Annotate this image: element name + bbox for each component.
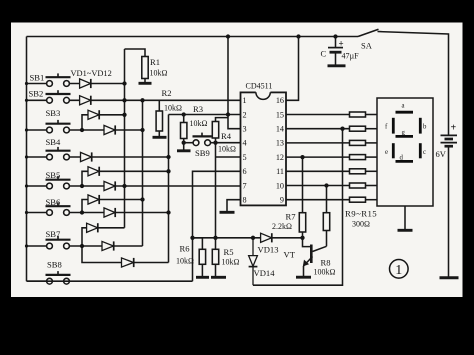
svg-text:1: 1 — [243, 96, 247, 105]
svg-text:14: 14 — [276, 125, 284, 134]
ground of display — [398, 229, 413, 232]
wire row SB6 to bus C — [69, 212, 168, 214]
diode VD8 upper of SB6 — [88, 195, 99, 204]
svg-text:SB9: SB9 — [195, 148, 210, 158]
svg-text:2.2kΩ: 2.2kΩ — [272, 222, 292, 231]
diode VD3 upper of SB3 — [88, 110, 99, 119]
svg-text:12: 12 — [276, 153, 284, 162]
svg-text:c: c — [423, 149, 426, 156]
resistor R1 10k — [125, 49, 152, 83]
seven segment g bar — [396, 135, 414, 138]
junction dots on bus E — [213, 141, 217, 240]
svg-text:d: d — [400, 155, 404, 162]
junction dot R7 bottom — [300, 236, 304, 240]
diode VD12 lower of SB7 — [122, 258, 134, 267]
wire bus D / IC pin6 — [193, 171, 241, 281]
svg-text:SB1: SB1 — [30, 73, 45, 83]
svg-text:+: + — [339, 39, 344, 49]
junction dots on resistor R3 leads — [182, 112, 186, 145]
wire SB5 upper branch to bus C — [82, 171, 169, 186]
svg-text:7: 7 — [243, 181, 247, 190]
ground at IC pin8 — [220, 211, 235, 214]
svg-text:100kΩ: 100kΩ — [314, 268, 336, 277]
resistor R14 — [350, 183, 378, 188]
svg-text:e: e — [385, 149, 388, 156]
svg-text:R1: R1 — [150, 57, 160, 67]
wire display common to ground — [404, 206, 406, 229]
seven segment b bar — [419, 118, 422, 134]
wire row SB4 to bus C — [69, 156, 168, 158]
pushbutton SB6 — [27, 202, 71, 215]
svg-text:SB3: SB3 — [46, 108, 61, 118]
wire bus C — [168, 115, 170, 263]
svg-text:R2: R2 — [162, 88, 172, 98]
svg-text:VD14: VD14 — [254, 268, 276, 278]
svg-text:15: 15 — [276, 110, 284, 119]
pushbutton SB5 — [27, 176, 71, 189]
seven segment display box — [377, 98, 433, 206]
svg-text:9: 9 — [280, 196, 284, 205]
wire row SB7 to bus B — [69, 245, 142, 247]
svg-text:SB6: SB6 — [46, 197, 62, 207]
wire left frame vertical — [26, 37, 28, 282]
svg-text:+: + — [451, 123, 457, 134]
wire IC pin14 row — [286, 128, 350, 130]
wire VD13 row — [193, 237, 303, 239]
svg-text:R6: R6 — [180, 244, 191, 254]
diode VD10 upper of SB7 — [87, 223, 98, 232]
svg-text:R9~R15: R9~R15 — [345, 209, 377, 219]
svg-text:13: 13 — [276, 139, 284, 148]
diode VD13 — [261, 233, 272, 242]
wire SB7 upper branch to bus A — [82, 228, 125, 246]
junction dots on bus C — [166, 155, 170, 215]
junction dots on bus A — [122, 81, 126, 188]
junction dots on supply rail — [226, 34, 338, 38]
wire IC pin11 row — [286, 170, 350, 172]
svg-text:R4: R4 — [221, 131, 232, 141]
pushbutton SB7 — [27, 236, 71, 249]
pushbutton SB1 — [27, 73, 71, 86]
svg-text:10kΩ: 10kΩ — [222, 258, 240, 267]
junction dot R7 at pin12 row — [300, 155, 304, 159]
wire IC pin16 to supply rail — [286, 37, 299, 101]
junction dot loop at pin14 row — [340, 127, 344, 131]
wire IC pin5 stub — [216, 156, 241, 158]
op-amp U1 CD4511 body — [241, 90, 287, 205]
diode VD11 on SB7 row — [102, 241, 114, 250]
junction dot Vcc drop at pin2 row — [226, 112, 230, 116]
wire row SB2 to IC pin1 — [69, 99, 240, 101]
wire bus B — [142, 100, 144, 246]
battery B1 6V — [440, 135, 459, 277]
svg-text:R7: R7 — [286, 212, 297, 222]
wire bus C top to IC pin2 — [169, 114, 241, 116]
svg-text:1: 1 — [395, 263, 402, 278]
svg-text:5: 5 — [243, 153, 247, 162]
diode VD2 — [80, 96, 91, 105]
svg-text:CD4511: CD4511 — [246, 82, 273, 91]
svg-text:47µF: 47µF — [342, 52, 360, 61]
resistor R3 10k — [177, 115, 191, 151]
wire rail right of SA — [378, 32, 449, 136]
pushbutton SB3 — [27, 120, 71, 133]
diode VD6 upper of SB5 — [88, 167, 99, 176]
svg-text:11: 11 — [276, 167, 284, 176]
pushbutton SB2 — [27, 90, 71, 103]
resistor R6 10k — [193, 238, 210, 277]
svg-text:8: 8 — [243, 196, 247, 205]
resistor R11 — [350, 140, 378, 145]
junction dot VD14 top — [251, 236, 255, 240]
figure number mark 1 in circle — [390, 260, 409, 279]
wire SB9 row to IC pin4 — [216, 142, 241, 144]
svg-text:SB8: SB8 — [47, 260, 62, 270]
svg-text:SB7: SB7 — [46, 229, 62, 239]
paper background — [11, 23, 463, 298]
wire IC pin9 row — [286, 199, 350, 201]
wire SB6 upper branch to bus B — [82, 200, 143, 213]
wire Vcc drop to IC pin3 — [228, 37, 241, 129]
diode VD5 on SB4 row — [81, 152, 92, 161]
svg-text:10kΩ: 10kΩ — [218, 145, 236, 154]
diode VD9 on SB6 row — [104, 208, 115, 217]
pushbutton SB9 — [184, 133, 216, 146]
svg-text:VT: VT — [284, 250, 296, 260]
svg-text:VD13: VD13 — [258, 245, 279, 255]
svg-text:3: 3 — [243, 125, 247, 134]
wire row SB5 / IC pin7 — [69, 185, 240, 187]
resistor R12 — [350, 155, 378, 160]
pushbutton SB8 — [27, 271, 71, 284]
junction dot R8 at pin10 row — [324, 183, 328, 187]
svg-text:R8: R8 — [321, 258, 331, 268]
svg-text:R5: R5 — [224, 247, 234, 257]
transistor VT — [296, 238, 327, 277]
seven segment e bar — [392, 143, 395, 158]
wire SB3 upper branch to bus A — [82, 115, 125, 130]
capacitor C1 47uF — [328, 37, 346, 66]
diode VD7 on SB5 row — [104, 181, 115, 190]
resistor R8 100k — [323, 186, 329, 247]
svg-text:16: 16 — [276, 96, 284, 105]
wire segment g feedback: pin14 row down to bottom loop — [253, 129, 343, 286]
svg-text:SA: SA — [361, 41, 373, 51]
svg-text:SB2: SB2 — [29, 89, 44, 99]
wire row SB8 to bus D — [27, 280, 193, 282]
svg-text:10kΩ: 10kΩ — [190, 119, 208, 128]
svg-text:300Ω: 300Ω — [352, 220, 370, 229]
svg-text:10: 10 — [276, 181, 284, 190]
wire SB7 lower branch to bus C — [82, 246, 169, 263]
svg-text:R3: R3 — [193, 104, 203, 114]
junction dots at button branches — [80, 128, 84, 248]
svg-text:g: g — [402, 130, 406, 137]
svg-text:a: a — [402, 103, 405, 110]
diode VD4 on SB3 row — [104, 125, 115, 134]
svg-text:4: 4 — [243, 139, 247, 148]
wire top supply rail — [27, 36, 359, 38]
switch SA — [358, 29, 379, 36]
wire bus E latch — [215, 143, 217, 238]
svg-text:SB5: SB5 — [46, 170, 61, 180]
wire bus A — [124, 49, 126, 228]
seven segment a bar — [396, 111, 414, 114]
junction dots on left frame — [25, 82, 28, 248]
wire IC pin8 to ground — [227, 200, 241, 212]
junction dots on bus B — [140, 98, 144, 202]
diode VD14 — [249, 238, 258, 285]
svg-text:6: 6 — [243, 167, 247, 176]
wire row SB1 to bus A — [69, 83, 124, 85]
seven segment c bar — [419, 143, 422, 158]
junction dot on bus D — [190, 236, 194, 240]
resistor R5 10k — [211, 238, 226, 277]
svg-text:10kΩ: 10kΩ — [150, 69, 168, 78]
wire IC pin10 row — [286, 185, 350, 187]
diode VD1 — [80, 79, 91, 88]
wire IC pin15 row — [286, 114, 350, 116]
resistor R10 — [350, 126, 378, 131]
resistor R13 — [350, 169, 378, 174]
svg-text:2: 2 — [243, 110, 247, 119]
wire row SB3 to bus B — [69, 129, 142, 131]
seven segment d bar — [396, 160, 414, 163]
svg-text:6V: 6V — [436, 149, 447, 159]
svg-text:b: b — [423, 124, 427, 131]
resistor R15 — [350, 197, 378, 202]
resistor R4 10k — [212, 118, 228, 143]
resistor R9 — [350, 112, 378, 117]
svg-text:C: C — [321, 49, 327, 59]
wire IC pin13 row — [286, 142, 350, 144]
svg-text:VD1~VD12: VD1~VD12 — [71, 69, 112, 78]
svg-text:10kΩ: 10kΩ — [164, 104, 182, 113]
resistor R7 2.2k — [299, 157, 305, 238]
pushbutton SB4 — [27, 147, 71, 160]
wire IC pin12 row — [286, 156, 350, 158]
resistor R2 10k — [153, 100, 167, 137]
seven segment f bar — [392, 118, 395, 134]
svg-text:SB4: SB4 — [46, 137, 62, 147]
svg-text:10kΩ: 10kΩ — [176, 257, 194, 266]
